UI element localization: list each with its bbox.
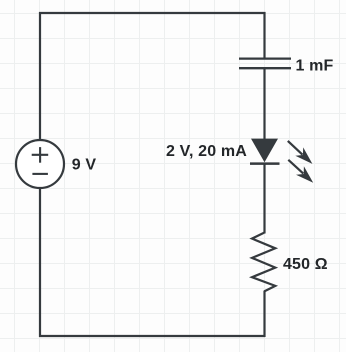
wire capacitor to LED <box>263 69 265 139</box>
wire top <box>39 12 266 14</box>
capacitor C1 <box>239 59 291 69</box>
wire resistor to bottom <box>263 291 265 337</box>
svg-text:9 V: 9 V <box>72 157 97 174</box>
voltage source V1 <box>16 140 64 188</box>
LED light arrow 2 <box>288 160 313 183</box>
plus sign <box>32 147 49 163</box>
wire bottom <box>39 335 265 337</box>
wire LED to resistor <box>263 164 265 234</box>
LED D1 <box>250 139 280 164</box>
resistor R1 <box>252 233 275 292</box>
wire left lower <box>39 187 41 337</box>
LED light arrow 1 <box>288 141 313 164</box>
minus sign <box>32 173 48 175</box>
svg-text:1 mF: 1 mF <box>296 58 334 75</box>
wire right upper <box>263 12 265 58</box>
svg-text:450 Ω: 450 Ω <box>283 256 328 273</box>
wire left upper <box>39 12 41 141</box>
svg-text:2 V, 20 mA: 2 V, 20 mA <box>166 143 247 160</box>
